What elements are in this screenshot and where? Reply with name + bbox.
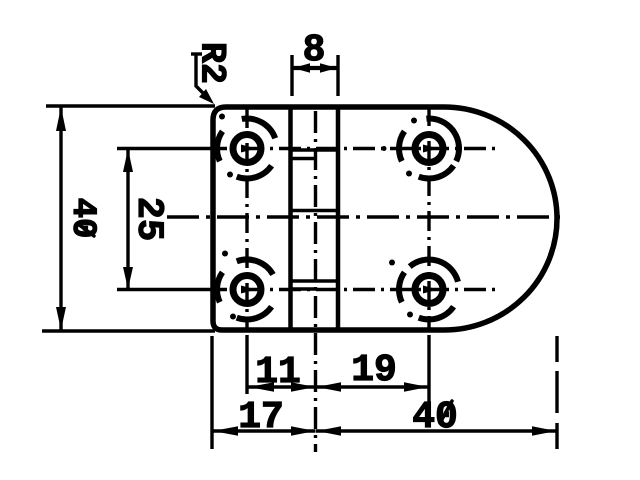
- knuckle divider line top full: [290, 148, 338, 152]
- dimension 11: right arrow: [291, 382, 315, 392]
- dimension 25: bottom arrow: [123, 267, 133, 289]
- dimension 8: left arrow: [293, 63, 310, 73]
- svg-text:19: 19: [351, 349, 397, 392]
- speck near hole bottom-right lower: [407, 312, 413, 318]
- knuckle divider line top partial: [290, 157, 316, 161]
- speck near hole top-left: [219, 114, 225, 120]
- hole top-left countersink arc left: [217, 131, 222, 161]
- dimension 40 bottom: dimension line: [316, 429, 557, 432]
- dimension 8: left extension line: [290, 55, 293, 96]
- hole top-left countersink arc bottom: [237, 166, 272, 179]
- dimension 40 bottom: left arrow: [317, 426, 341, 436]
- bottom extension line at part left edge: [210, 336, 213, 449]
- dimension 40 left: bottom extension line: [42, 329, 215, 332]
- speck near hole bottom-left: [222, 251, 228, 257]
- right holes vertical center line: [427, 106, 430, 332]
- speck left of hole top-right: [382, 146, 387, 151]
- hole bottom-right countersink arc left: [399, 272, 404, 302]
- hole bottom-right center mark: [423, 286, 438, 294]
- slash of zero in bottom 40 label: [440, 401, 452, 423]
- dimension 40 left: top extension line: [46, 104, 215, 107]
- dimension 40 bottom: right arrow: [532, 426, 556, 436]
- R2 leader line: [196, 54, 208, 98]
- bottom extension line at part right end: [555, 336, 558, 449]
- dimension 11: left arrow: [249, 382, 274, 392]
- dimension 8: right arrow: [320, 63, 337, 73]
- knuckle left edge line: [288, 107, 293, 330]
- svg-text:25: 25: [127, 197, 169, 241]
- speck near hole bottom-right: [389, 260, 395, 266]
- knuckle divider line middle: [290, 209, 338, 213]
- dimension 8: right extension line: [336, 55, 339, 96]
- knuckle right edge line: [336, 107, 341, 330]
- slash of zero in left 40 label: [78, 224, 94, 236]
- part outline (hinge leaf with rounded right end): [213, 107, 557, 330]
- dimension 19: left arrow: [317, 382, 341, 392]
- svg-text:R2: R2: [192, 42, 232, 84]
- hole top-right center mark: [423, 145, 438, 153]
- hole bottom-left countersink arc left: [217, 272, 222, 302]
- svg-text:17: 17: [238, 396, 284, 439]
- bottom extension line at left hole center: [245, 335, 248, 394]
- svg-text:40: 40: [63, 198, 101, 239]
- main horizontal center line: [167, 215, 565, 218]
- knuckle divider line bottom partial: [290, 287, 316, 291]
- speck near hole top-right lower: [406, 171, 412, 177]
- speck near hole top-right: [411, 118, 417, 124]
- dimension 40 left: top arrow: [56, 107, 66, 131]
- bottom holes horizontal center line: [205, 288, 497, 291]
- hole bottom-left countersink arc bottom: [237, 307, 272, 320]
- hole top-left center mark: [241, 145, 256, 153]
- hole top-right countersink arc top: [426, 118, 459, 161]
- svg-text:8: 8: [303, 29, 326, 72]
- hole bottom-left countersink arc top: [237, 260, 273, 275]
- dimension 40 left: dimension line: [59, 107, 62, 330]
- bottom extension line at right hole center: [427, 335, 430, 407]
- knuckle vertical center line: [314, 111, 317, 452]
- dimension 17: right arrow: [291, 426, 315, 436]
- dimension 25: bottom extension line: [117, 288, 205, 291]
- hole bottom-right inner circle: [415, 276, 443, 304]
- R2 leader arrow: [199, 89, 214, 104]
- dimension 25: dimension line: [126, 149, 129, 289]
- hole top-right inner circle: [415, 135, 443, 163]
- hole bottom-left inner circle: [233, 276, 261, 304]
- dimension 11: dimension line: [248, 385, 316, 388]
- dimension 17: dimension line: [212, 429, 316, 432]
- dimension 17: left arrow: [213, 426, 238, 436]
- speck near hole top-left lower: [227, 172, 233, 178]
- hole top-right countersink arc left: [399, 131, 404, 161]
- dimension 40 left: bottom arrow: [56, 307, 66, 330]
- hole bottom-left center mark: [241, 286, 256, 294]
- dimension 25: top extension line: [117, 147, 205, 150]
- hole bottom-right countersink arc bottom: [419, 307, 454, 320]
- speck near hole bottom-left lower: [230, 314, 236, 320]
- knuckle divider line bottom full: [290, 279, 338, 283]
- left holes vertical center line: [245, 108, 248, 332]
- dimension 8: dimension line: [292, 66, 338, 70]
- hole top-left countersink arc top: [242, 119, 275, 139]
- dimension 19: dimension line: [316, 385, 429, 388]
- hole bottom-right countersink arc top: [410, 260, 458, 282]
- dimension 25: top arrow: [123, 149, 133, 172]
- hole top-right countersink arc bottom: [419, 166, 454, 179]
- R2 leader tick: [191, 52, 202, 55]
- top holes horizontal center line: [205, 147, 497, 150]
- svg-text:11: 11: [255, 351, 301, 394]
- dimension 19: right arrow: [404, 382, 428, 392]
- hole top-left inner circle: [233, 135, 261, 163]
